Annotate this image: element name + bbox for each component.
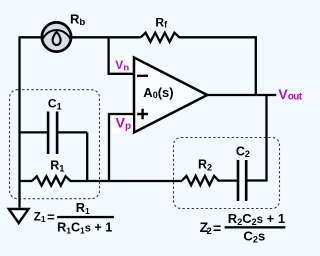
svg-text:R1C1s + 1: R1C1s + 1 <box>57 221 112 236</box>
svg-text:R2C2s + 1: R2C2s + 1 <box>228 211 285 227</box>
svg-text:A0(s): A0(s) <box>143 85 173 100</box>
svg-text:=: = <box>213 221 222 236</box>
svg-text:2: 2 <box>207 226 212 237</box>
